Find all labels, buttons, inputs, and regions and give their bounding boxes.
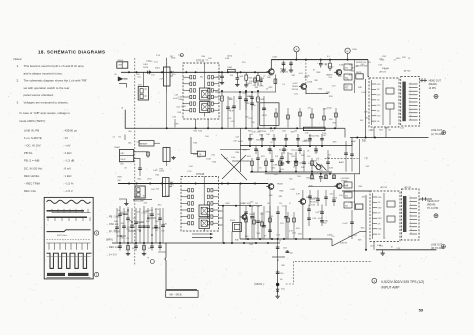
IC U401 crossed box 2 xyxy=(200,102,211,113)
transistor Q402 xyxy=(336,70,342,76)
IC U402 internal rails xyxy=(203,177,205,206)
wire vertical x223 to lower bus xyxy=(222,206,224,243)
IC U401 internal rails xyxy=(204,63,206,88)
flat resistor network RN401 xyxy=(303,127,325,130)
waveform row 4 step trace xyxy=(47,230,91,232)
capacitor C403 to ground xyxy=(236,72,238,78)
svg-text:R445: R445 xyxy=(353,49,357,51)
wire short y161 xyxy=(232,160,250,162)
svg-text:100: 100 xyxy=(294,131,297,133)
extra components upper-mid columns xyxy=(227,96,229,128)
module AT734 dark bar xyxy=(403,196,406,232)
module AT723 internal components xyxy=(371,80,373,125)
svg-text:R472: R472 xyxy=(377,94,381,96)
wire short y149.5 xyxy=(220,149,250,151)
svg-text:2SC1415: 2SC1415 xyxy=(309,201,317,203)
svg-text:0.047: 0.047 xyxy=(362,92,368,94)
IC U402 crossed box 2 xyxy=(199,218,210,229)
transistor Q401 xyxy=(269,69,275,75)
resistor R404 vertical xyxy=(257,72,259,75)
svg-text:6.8K: 6.8K xyxy=(225,58,230,60)
svg-text:: −1.5 V: : −1.5 V xyxy=(63,189,73,193)
svg-text:18. SCHEMATIC DIAGRAMS: 18. SCHEMATIC DIAGRAMS xyxy=(38,50,105,55)
svg-text:4.7K: 4.7K xyxy=(265,212,270,214)
svg-text:1.: 1. xyxy=(17,64,20,68)
waveform row 1 sine wave xyxy=(47,200,91,203)
wire lower channel bus 3 xyxy=(308,186,336,188)
svg-text:AT734: AT734 xyxy=(405,186,412,189)
wire crossover diagonal 1 xyxy=(221,154,247,180)
module AT723 dashed box xyxy=(369,78,399,127)
svg-text:2.2K: 2.2K xyxy=(272,138,277,140)
waveform row 3 bar with ticks xyxy=(47,216,88,218)
IC U402 dashed block xyxy=(181,177,219,232)
svg-text:TR403: TR403 xyxy=(292,86,299,88)
extra lower cluster verticals xyxy=(245,212,247,239)
svg-text:C451: C451 xyxy=(370,245,374,247)
svg-text:R446: R446 xyxy=(351,141,356,143)
capacitor block C483 xyxy=(163,148,170,162)
svg-text:3: 3 xyxy=(410,90,411,92)
svg-text:: −mV: : −mV xyxy=(63,144,71,148)
svg-text:C411: C411 xyxy=(157,214,161,216)
component drops to bus 3 xyxy=(251,158,253,172)
waveform row 6 tick row xyxy=(47,242,91,244)
svg-text:0.047: 0.047 xyxy=(124,212,130,214)
lower mid cluster components xyxy=(245,206,247,239)
svg-text:4.7K: 4.7K xyxy=(187,171,192,173)
ground stub under CN402 xyxy=(119,199,126,202)
svg-text:CN401: CN401 xyxy=(117,60,124,62)
stacked resistors right column upper xyxy=(344,64,352,70)
svg-text:R46: R46 xyxy=(345,205,348,207)
left dashed rail xyxy=(134,58,136,266)
wire module left rail down xyxy=(365,79,367,138)
svg-text:: 1 kHz: : 1 kHz xyxy=(63,174,72,178)
capacitor C402 to ground xyxy=(221,72,223,76)
wire IC U402 output path y205.7 xyxy=(219,205,263,207)
svg-text:[ MUTE ]: [ MUTE ] xyxy=(254,283,264,286)
svg-text:0.047: 0.047 xyxy=(310,179,316,181)
svg-text:0.047: 0.047 xyxy=(343,223,349,225)
svg-text:0.047: 0.047 xyxy=(293,83,299,85)
svg-text:R402: R402 xyxy=(228,67,233,69)
wire vertical link x240 xyxy=(240,128,242,172)
svg-text:R481: R481 xyxy=(118,177,122,179)
wire feedback lower bus xyxy=(125,110,345,128)
svg-text:RL401: RL401 xyxy=(230,220,235,222)
svg-text:5: 5 xyxy=(410,97,411,99)
diode D401 xyxy=(276,289,279,292)
wire under Q403 xyxy=(306,93,328,95)
resistor R403 to ground xyxy=(245,72,247,75)
wire module left rail down lower xyxy=(365,195,367,250)
wire VR401 bottom to feedback bus xyxy=(166,92,168,129)
line out R wire xyxy=(376,249,436,251)
svg-text:6: 6 xyxy=(410,100,411,102)
svg-text:11: 11 xyxy=(410,232,412,234)
svg-text:R486: R486 xyxy=(378,229,382,231)
svg-text:2.2K: 2.2K xyxy=(160,79,165,81)
extra left cluster verticals xyxy=(116,208,118,243)
svg-text:9: 9 xyxy=(410,111,411,113)
wire mid bus 2 xyxy=(240,145,352,147)
svg-text:DC, IN (20 Hz): DC, IN (20 Hz) xyxy=(24,166,42,170)
svg-text:: −1.5 %: : −1.5 % xyxy=(63,181,74,185)
svg-text:47: 47 xyxy=(289,203,291,205)
svg-text:100/6: 100/6 xyxy=(159,170,165,172)
wire input stub xyxy=(119,84,127,88)
svg-text:2.2K: 2.2K xyxy=(156,55,161,57)
connector CN402 line input R xyxy=(120,150,134,162)
svg-text:7: 7 xyxy=(410,104,411,106)
test point circle A xyxy=(294,47,299,52)
circled number 2 at bottom bar xyxy=(94,272,98,276)
component bits right of CN402 xyxy=(147,151,149,158)
wire crossover diagonal 2 xyxy=(222,155,246,179)
svg-text:4.7K: 4.7K xyxy=(296,194,301,196)
svg-text:4: 4 xyxy=(410,93,411,95)
right column verticals mid band xyxy=(345,141,347,172)
svg-text:6.8K: 6.8K xyxy=(153,170,158,172)
resistor R408 drop xyxy=(257,91,259,97)
svg-text:33K: 33K xyxy=(324,221,328,223)
svg-text:R403: R403 xyxy=(248,77,252,79)
svg-text:2.2K: 2.2K xyxy=(396,248,401,250)
svg-text:(REAR): (REAR) xyxy=(429,83,437,86)
level control VR402 xyxy=(162,178,169,197)
svg-text:0.047: 0.047 xyxy=(279,165,285,167)
svg-text:TR410: TR410 xyxy=(344,178,349,180)
svg-text:C4: C4 xyxy=(113,137,115,139)
svg-text:R459: R459 xyxy=(280,273,284,275)
svg-text:mode 100% (TEST):: mode 100% (TEST): xyxy=(19,119,46,123)
wire vertical link x352 xyxy=(351,138,353,147)
svg-text:PB, S = 4dB: PB, S = 4dB xyxy=(24,159,39,163)
svg-text:C455: C455 xyxy=(283,248,287,250)
svg-text:R4: R4 xyxy=(119,137,121,139)
head out symbol upper xyxy=(434,94,438,98)
svg-text:10/16: 10/16 xyxy=(143,67,149,69)
IC U402 crossed box 1 xyxy=(199,205,210,217)
wire from cluster down to MX box xyxy=(165,243,197,290)
svg-text:401: 401 xyxy=(172,74,175,76)
svg-text:R420: R420 xyxy=(247,156,251,158)
test point circle C xyxy=(345,48,350,53)
svg-text:R404: R404 xyxy=(260,78,264,80)
extra grounds row y163 xyxy=(287,152,289,160)
svg-text:R49: R49 xyxy=(132,248,135,250)
svg-text:The schematic diagram shows th: The schematic diagram shows the L ch wit… xyxy=(24,79,88,83)
waveform row 8 dark segmented bar xyxy=(47,273,65,276)
svg-text:100/6: 100/6 xyxy=(332,198,338,200)
wire mid bus 3 xyxy=(250,171,332,173)
mute box lower xyxy=(356,204,363,209)
ground under mute network xyxy=(277,295,279,297)
IC U402 stub wires right xyxy=(219,210,223,212)
svg-text:2.2K: 2.2K xyxy=(384,128,389,130)
svg-text:panel source unlocked.: panel source unlocked. xyxy=(24,93,54,97)
capacitor C422 to ground xyxy=(281,152,283,157)
svg-text:V-522/V-502/V-925 TPS (1/2): V-522/V-502/V-925 TPS (1/2) xyxy=(381,280,424,284)
small amp box PB EQ xyxy=(139,141,154,147)
mute FET Q404 xyxy=(316,165,321,170)
svg-text:0.047: 0.047 xyxy=(318,218,324,220)
waveform row 7 pulse train xyxy=(47,253,92,268)
line out R terminal symbol xyxy=(442,245,446,249)
circled number 1 at step trace xyxy=(94,231,98,235)
test point box TP401 xyxy=(198,151,206,156)
svg-text:: 4 kHz: : 4 kHz xyxy=(63,151,72,155)
svg-text:6.8K: 6.8K xyxy=(339,65,344,67)
mid column components x355 xyxy=(359,139,361,174)
waveform oscillogram box xyxy=(44,197,93,279)
svg-text:MPX Filter: MPX Filter xyxy=(57,234,67,237)
ground near C483 xyxy=(173,156,175,158)
svg-text:C481: C481 xyxy=(137,178,141,180)
svg-text:33K: 33K xyxy=(255,87,259,89)
transistor Q407 xyxy=(336,183,342,189)
svg-text:10/16: 10/16 xyxy=(147,178,152,180)
resistor R407 drop xyxy=(221,91,223,96)
svg-text:33K: 33K xyxy=(269,195,273,197)
svg-text:TR402: TR402 xyxy=(327,67,334,69)
svg-text:14 PIN: 14 PIN xyxy=(429,87,437,90)
svg-text:R488: R488 xyxy=(114,221,118,223)
mute box upper xyxy=(356,74,363,79)
svg-text:R484: R484 xyxy=(378,218,382,220)
svg-text:LINE IN, PB: LINE IN, PB xyxy=(24,129,39,133)
wire below VR401 xyxy=(166,86,168,92)
caption circled 1 xyxy=(372,278,377,283)
node junction dots on input bus xyxy=(128,71,130,73)
svg-text:8: 8 xyxy=(410,108,411,110)
svg-text:0.047: 0.047 xyxy=(282,205,288,207)
relay box RL401 xyxy=(233,223,242,232)
svg-text:0.047: 0.047 xyxy=(134,196,140,198)
svg-text:0.047: 0.047 xyxy=(206,159,212,161)
svg-text:S401: S401 xyxy=(138,84,142,86)
wire right vertical to line-out bus xyxy=(344,128,346,137)
svg-text:C49: C49 xyxy=(141,222,144,224)
left lower cluster bus xyxy=(112,242,280,244)
line out L wire xyxy=(350,137,429,139)
svg-text:R42: R42 xyxy=(200,77,203,79)
svg-text:0.047: 0.047 xyxy=(142,212,148,214)
dashed mute control line xyxy=(325,158,360,160)
svg-text:C492: C492 xyxy=(155,221,159,223)
wire relay to bus xyxy=(231,232,233,244)
module AT733 internals xyxy=(372,193,374,239)
module AT734 dashed box xyxy=(402,189,420,240)
svg-text:0.047: 0.047 xyxy=(272,57,278,59)
svg-text:TO 14 PIN: TO 14 PIN xyxy=(427,207,439,210)
line out L terminal symbol xyxy=(442,131,446,135)
capacitor C482 near CN402 xyxy=(138,167,142,169)
svg-text:AT721B: AT721B xyxy=(196,60,205,63)
extra component drops upper bus x283-298 xyxy=(283,61,285,66)
svg-text:Notes:: Notes: xyxy=(14,57,23,61)
svg-text:AT723: AT723 xyxy=(380,71,387,74)
mute transistor vertical network xyxy=(277,270,279,295)
short wire segment at mute node xyxy=(272,256,285,258)
extra components band 150-170 xyxy=(257,150,259,172)
IC U401 dashed block xyxy=(183,63,219,119)
svg-text:C: C xyxy=(347,49,349,53)
svg-text:HEAD OUT: HEAD OUT xyxy=(427,200,440,203)
right column vertical lower band xyxy=(351,210,353,239)
svg-text:10: 10 xyxy=(410,115,412,117)
diagonal wire to relay bus xyxy=(332,232,360,247)
right column stacked module lower xyxy=(344,182,352,188)
extra junction dots left cluster xyxy=(123,213,125,215)
left cluster rung ties xyxy=(120,213,128,215)
svg-text:AT724: AT724 xyxy=(404,69,411,72)
svg-text:3.: 3. xyxy=(17,100,20,104)
ground at line out R xyxy=(382,250,384,252)
svg-text:R474: R474 xyxy=(377,105,381,107)
svg-text:REC LEVEL: REC LEVEL xyxy=(24,174,40,178)
extra drops below mid bus2 to bus3 xyxy=(255,146,257,154)
svg-text:(REAR): (REAR) xyxy=(427,203,435,206)
rail dashed from node A down xyxy=(305,60,307,95)
wire lower mid bus xyxy=(240,238,332,240)
IC U402 pin contact brackets xyxy=(188,189,190,192)
wire into right modules xyxy=(368,60,369,77)
svg-text:2.: 2. xyxy=(17,79,20,83)
IC U401 pin contact brackets xyxy=(190,76,192,79)
svg-text:10: 10 xyxy=(410,229,412,231)
svg-text:REC CAL: REC CAL xyxy=(24,189,37,193)
left lower cluster vertical components xyxy=(119,206,121,243)
svg-text:MUTE: MUTE xyxy=(350,202,356,204)
svg-text:6.8K: 6.8K xyxy=(377,245,382,247)
svg-text:6.8K: 6.8K xyxy=(291,189,296,191)
svg-text:(MPX): (MPX) xyxy=(106,238,113,241)
svg-text:: −1.5 dB: : −1.5 dB xyxy=(63,159,74,163)
wire vertical link lower x240 xyxy=(239,184,241,240)
svg-text:100/6: 100/6 xyxy=(307,81,313,83)
wire lower channel bus 2 xyxy=(265,173,360,175)
svg-text:LINE OUT: LINE OUT xyxy=(431,244,443,247)
svg-text:R450 270Ω: R450 270Ω xyxy=(309,136,320,138)
wire into lower right modules xyxy=(342,190,370,192)
module AT734 pin ticks xyxy=(409,197,417,199)
svg-text:59: 59 xyxy=(419,307,424,312)
svg-text:R441: R441 xyxy=(379,129,383,131)
svg-text:PB AMP: PB AMP xyxy=(140,143,148,146)
waveform row 5 dotted reference xyxy=(47,239,91,241)
svg-text:4.7K: 4.7K xyxy=(155,209,160,211)
svg-text:2.2K: 2.2K xyxy=(256,99,261,101)
GND label and riser above VR401 xyxy=(166,58,168,67)
module AT724 dark element bar xyxy=(402,82,405,122)
svg-text:→ b = 5 V: → b = 5 V xyxy=(106,254,117,257)
svg-text:6.8K: 6.8K xyxy=(128,220,133,222)
IC U401 pin drops to feedback bus xyxy=(195,119,197,128)
svg-text:6.8K: 6.8K xyxy=(329,168,334,170)
wires from CN402 to R channel path xyxy=(134,151,148,153)
svg-text:PB S/L: PB S/L xyxy=(24,151,33,155)
emitter resistor network Q401 xyxy=(274,74,276,92)
svg-text:33K: 33K xyxy=(279,196,283,198)
svg-text:: 1V: : 1V xyxy=(63,136,68,140)
svg-text:Voltages are measured to chass: Voltages are measured to chassis. xyxy=(24,100,69,104)
wire stub to TP401 xyxy=(191,137,198,154)
MX unit box xyxy=(166,291,198,298)
svg-text:6.8K: 6.8K xyxy=(273,164,278,166)
svg-text:11: 11 xyxy=(410,118,412,120)
svg-text:and is always mounted in two.: and is always mounted in two. xyxy=(24,71,63,75)
wire main input bus L-ch xyxy=(121,71,268,73)
module AT724 pin ticks xyxy=(409,83,418,85)
svg-text:S-MUTE: S-MUTE xyxy=(340,243,348,245)
transistor Q408 xyxy=(268,184,274,190)
svg-text:AT721B: AT721B xyxy=(196,173,205,176)
svg-text:402: 402 xyxy=(171,184,174,186)
wire module output to head connector xyxy=(420,79,427,81)
capacitor C445 drop xyxy=(320,174,322,177)
svg-text:R480: R480 xyxy=(378,197,382,199)
dual element S402 xyxy=(135,186,145,198)
svg-text:INPUT AMP: INPUT AMP xyxy=(382,286,401,290)
svg-text:In case of “A/B” amp setups: In case of “A/B” amp setups, voltage is xyxy=(20,111,71,115)
left cluster extra below-bus parts xyxy=(119,243,121,251)
svg-text:MX − 545 B: MX − 545 B xyxy=(170,294,183,296)
svg-text:A: A xyxy=(296,47,298,51)
svg-text:C43: C43 xyxy=(255,203,258,205)
cap chain column x322 xyxy=(321,205,323,227)
extra drops lower area under bus y173 xyxy=(311,174,313,179)
resistor R402 series on bus xyxy=(228,69,236,72)
dual element S401 xyxy=(138,87,148,100)
wire Q401 collector to upper bus xyxy=(270,60,272,69)
module AT733 dashed box xyxy=(370,191,400,242)
svg-text:1: 1 xyxy=(410,82,411,84)
extra components band 100-127 right xyxy=(275,108,277,128)
IC U401 crossed box 1 xyxy=(200,88,211,100)
connector CN401 line input xyxy=(117,62,128,68)
svg-text:CN402: CN402 xyxy=(114,147,120,149)
capacitor C455 above mute node xyxy=(286,250,288,253)
capacitor C405 polarized on upper bus xyxy=(320,60,322,64)
svg-text:R482: R482 xyxy=(378,207,382,209)
svg-text:C48: C48 xyxy=(133,218,136,220)
svg-text:R408: R408 xyxy=(260,99,264,101)
svg-text:R460: R460 xyxy=(396,58,400,60)
left lower cluster below-bus components xyxy=(127,243,129,252)
svg-text:R46: R46 xyxy=(345,195,348,197)
cluster components under wire y92 xyxy=(239,92,241,110)
transistor Q406 xyxy=(300,199,306,205)
transistor Q403 xyxy=(301,84,307,90)
svg-text:4.7K: 4.7K xyxy=(344,185,349,187)
mute network riser from lower bus xyxy=(277,239,279,270)
svg-text:2: 2 xyxy=(410,86,411,88)
svg-text:sw with operation switch t: sw with operation switch to the rear xyxy=(24,86,70,90)
test point TP402 xyxy=(150,260,154,264)
svg-text:C420: C420 xyxy=(291,156,295,158)
svg-text:D401: D401 xyxy=(281,289,285,291)
svg-text:MUTE: MUTE xyxy=(356,72,362,74)
module AT724 dashed box xyxy=(401,77,420,127)
svg-text:C411: C411 xyxy=(282,131,286,133)
svg-text:: 8 mV: : 8 mV xyxy=(63,166,71,170)
svg-text:TR408: TR408 xyxy=(277,183,284,185)
level control VR401 xyxy=(163,67,170,86)
svg-text:0.047: 0.047 xyxy=(181,106,187,108)
svg-text:LINE OUT: LINE OUT xyxy=(431,129,443,132)
